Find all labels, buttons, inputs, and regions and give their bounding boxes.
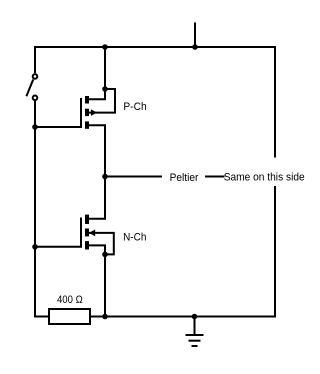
svg-text:Same on this side: Same on this side [224,171,305,183]
svg-text:Peltier: Peltier [170,172,199,184]
svg-text:400 Ω: 400 Ω [57,294,83,306]
svg-text:P-Ch: P-Ch [123,101,146,113]
svg-text:N-Ch: N-Ch [123,231,146,243]
